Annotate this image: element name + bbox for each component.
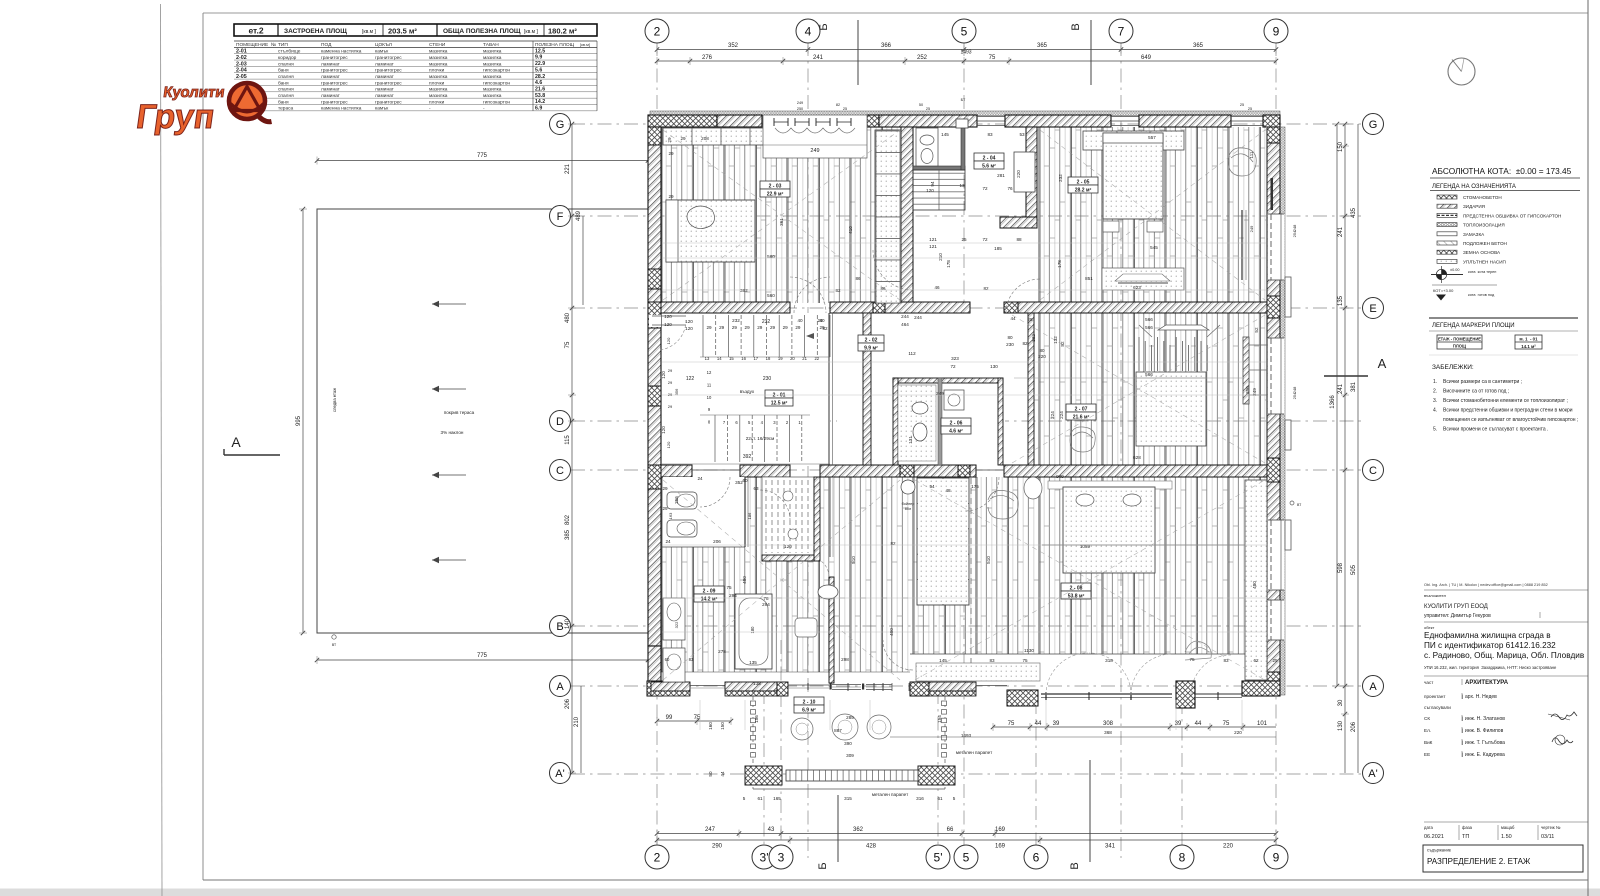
svg-text:80л: 80л xyxy=(905,507,911,511)
area header table xyxy=(234,24,597,36)
svg-text:75: 75 xyxy=(565,341,571,348)
svg-text:21: 21 xyxy=(802,356,807,361)
svg-text:220: 220 xyxy=(1016,170,1021,178)
svg-text:Всички размери са в сантиметри: Всички размери са в сантиметри ; xyxy=(1443,379,1522,385)
svg-text:22.9 м²: 22.9 м² xyxy=(767,192,784,198)
interior wall V1 (x903) xyxy=(901,127,913,302)
svg-text:6: 6 xyxy=(1033,850,1040,864)
outer wall top xyxy=(648,111,1280,127)
bed 2-05 xyxy=(1103,133,1163,219)
svg-text:ЗАБЕЛЕЖКИ:: ЗАБЕЛЕЖКИ: xyxy=(1432,364,1474,371)
svg-text:254: 254 xyxy=(1292,392,1297,399)
svg-text:560: 560 xyxy=(767,293,775,298)
svg-text:29: 29 xyxy=(745,325,751,330)
svg-text:390: 390 xyxy=(844,741,852,746)
vertical dimension line xyxy=(565,686,576,775)
svg-text:248: 248 xyxy=(1292,386,1297,393)
room 2-05 floor xyxy=(1037,127,1267,303)
svg-text:290: 290 xyxy=(712,844,723,850)
svg-text:30: 30 xyxy=(1338,699,1344,706)
svg-text:623: 623 xyxy=(1133,285,1141,290)
svg-text:278: 278 xyxy=(718,649,726,654)
svg-text:88: 88 xyxy=(1016,237,1022,242)
svg-text:1.50: 1.50 xyxy=(1501,834,1512,840)
vertical dimension line xyxy=(1338,216,1349,470)
svg-text:83: 83 xyxy=(987,132,993,137)
svg-text:566: 566 xyxy=(1145,317,1153,322)
svg-text:381: 381 xyxy=(1351,381,1357,392)
vertical dimension line xyxy=(576,210,583,305)
terrace side rail posts xyxy=(751,701,947,757)
svg-text:775: 775 xyxy=(477,153,488,159)
svg-text:ЕТАЖ - ПОМЕЩЕНИЕ: ЕТАЖ - ПОМЕЩЕНИЕ xyxy=(1438,337,1481,342)
svg-text:покрив тераса: покрив тераса xyxy=(444,410,475,415)
svg-text:въздух: въздух xyxy=(740,389,755,394)
svg-text:40: 40 xyxy=(797,318,803,323)
svg-text:230: 230 xyxy=(763,376,772,382)
svg-text:252: 252 xyxy=(917,55,928,61)
svg-text:C: C xyxy=(1369,465,1377,477)
svg-text:15: 15 xyxy=(729,356,734,361)
legend item ЗЕМНА ОСНОВА xyxy=(1437,250,1501,255)
svg-text:29: 29 xyxy=(770,325,776,330)
svg-text:82: 82 xyxy=(890,541,896,546)
svg-text:249: 249 xyxy=(936,391,944,396)
svg-text:120: 120 xyxy=(661,426,666,434)
bath right wall x829 xyxy=(829,577,834,683)
svg-text:В: В xyxy=(1069,862,1081,869)
marker boxes xyxy=(1437,335,1542,349)
svg-text:ТП: ТП xyxy=(1462,834,1469,840)
svg-text:366: 366 xyxy=(881,43,892,49)
svg-text:с. Радиново, Общ. Марица, Обл.: с. Радиново, Общ. Марица, Обл. Пловдив xyxy=(1424,651,1584,660)
svg-text:80: 80 xyxy=(1007,335,1013,340)
svg-text:м. 1 - 01: м. 1 - 01 xyxy=(1519,337,1538,342)
roof terrace outline (left) xyxy=(317,209,648,633)
svg-text:435: 435 xyxy=(1351,207,1357,218)
svg-text:480: 480 xyxy=(742,576,747,584)
svg-text:232: 232 xyxy=(1058,174,1063,182)
axis C xyxy=(1363,460,1384,481)
interior wall row G-F mid (y303) xyxy=(661,302,1267,313)
svg-text:ПЛОЩ: ПЛОЩ xyxy=(1453,344,1467,349)
svg-text:В: В xyxy=(1070,23,1082,30)
balcony door leaf 2-05 xyxy=(1271,178,1274,210)
vertical dimension line xyxy=(296,207,307,635)
svg-text:25: 25 xyxy=(1248,107,1252,111)
svg-text:29: 29 xyxy=(795,325,801,330)
svg-text:2: 2 xyxy=(654,850,661,864)
svg-text:241: 241 xyxy=(1338,226,1344,237)
armchair sketch 2-08 xyxy=(988,490,1018,519)
svg-text:18: 18 xyxy=(766,356,771,361)
svg-text:5: 5 xyxy=(953,796,956,801)
svg-text:G: G xyxy=(1369,119,1378,131)
svg-text:178: 178 xyxy=(946,260,951,268)
wardrobe unit 2x5 xyxy=(917,478,969,605)
svg-text:29: 29 xyxy=(719,325,725,330)
svg-text:315: 315 xyxy=(844,796,852,801)
svg-text:276: 276 xyxy=(702,55,713,61)
svg-text:78: 78 xyxy=(763,596,769,601)
svg-text:ЛЕГЕНДА МАРКЕРИ ПЛОЩИ: ЛЕГЕНДА МАРКЕРИ ПЛОЩИ xyxy=(1432,323,1515,329)
svg-text:3% наклон: 3% наклон xyxy=(441,430,464,435)
svg-text:03/11: 03/11 xyxy=(1541,834,1554,840)
label 2-04 xyxy=(974,153,1004,161)
svg-text:82: 82 xyxy=(983,286,989,291)
svg-text:54: 54 xyxy=(929,484,935,489)
svg-text:220: 220 xyxy=(1234,730,1242,735)
svg-text:281: 281 xyxy=(997,173,1005,178)
svg-text:318: 318 xyxy=(1105,658,1113,663)
svg-text:6.9 м²: 6.9 м² xyxy=(802,708,816,714)
vertical dimension line xyxy=(1338,468,1349,688)
svg-text:145: 145 xyxy=(941,132,949,137)
svg-text:230: 230 xyxy=(1006,342,1014,347)
svg-text:29: 29 xyxy=(668,404,673,409)
title block xyxy=(1424,583,1588,758)
svg-text:АРХИТЕКТУРА: АРХИТЕКТУРА xyxy=(1465,680,1509,686)
svg-text:24: 24 xyxy=(665,539,671,544)
svg-text:F: F xyxy=(557,211,564,223)
svg-text:75: 75 xyxy=(989,55,996,61)
dimension line xyxy=(655,827,1278,838)
dimension line xyxy=(315,153,650,165)
svg-text:29: 29 xyxy=(757,325,763,330)
svg-text:82: 82 xyxy=(1060,341,1065,347)
svg-text:53.8: 53.8 xyxy=(535,93,545,99)
bath 2-06 walls xyxy=(893,378,1003,465)
svg-text:285: 285 xyxy=(846,715,854,720)
bath 2-04 wall xyxy=(913,127,965,170)
svg-text:44: 44 xyxy=(1010,316,1016,321)
svg-text:249: 249 xyxy=(1252,388,1257,396)
svg-text:53.8 м²: 53.8 м² xyxy=(1068,594,1085,600)
axis 9 xyxy=(1264,845,1288,869)
axis 3' xyxy=(752,845,776,869)
svg-text:82: 82 xyxy=(822,326,828,331)
vertical dimension line xyxy=(1330,122,1341,688)
svg-text:[кв.м]: [кв.м] xyxy=(580,42,590,47)
svg-text:29: 29 xyxy=(732,325,738,330)
svg-text:6.9: 6.9 xyxy=(535,106,542,112)
svg-text:29: 29 xyxy=(667,137,672,143)
svg-text:241: 241 xyxy=(1338,383,1344,394)
axis 7 xyxy=(1109,19,1133,43)
svg-text:120: 120 xyxy=(784,544,792,549)
axis A xyxy=(1363,676,1384,697)
svg-text:356: 356 xyxy=(674,388,679,395)
svg-text:8: 8 xyxy=(1179,850,1186,864)
svg-text:365: 365 xyxy=(1193,43,1204,49)
svg-text:21.6 м²: 21.6 м² xyxy=(1073,415,1090,421)
svg-text:фаза: фаза xyxy=(1462,825,1473,830)
svg-text:20: 20 xyxy=(790,356,795,361)
bath 2-06 fixtures xyxy=(898,385,964,461)
axis G xyxy=(550,114,571,135)
svg-text:4.: 4. xyxy=(1433,408,1437,414)
svg-text:ЕЕ: ЕЕ xyxy=(1424,752,1430,757)
svg-text:инж. Н. Златанов: инж. Н. Златанов xyxy=(1465,716,1505,722)
svg-text:арх. Н. Недев: арх. Н. Недев xyxy=(1465,694,1497,700)
svg-text:52: 52 xyxy=(1254,327,1259,333)
svg-text:220: 220 xyxy=(1038,354,1046,359)
vertical dimension line xyxy=(1351,308,1358,470)
svg-text:А: А xyxy=(1378,356,1387,371)
svg-text:254: 254 xyxy=(1292,230,1297,237)
svg-text:249: 249 xyxy=(810,148,819,154)
svg-text:14.2 м²: 14.2 м² xyxy=(701,597,718,603)
svg-text:2 - 10: 2 - 10 xyxy=(803,700,816,706)
room 2-07 floor xyxy=(1034,313,1267,465)
svg-text:46: 46 xyxy=(934,285,940,290)
svg-text:206: 206 xyxy=(713,539,721,544)
room 2-09 area floor xyxy=(661,477,910,672)
svg-text:72: 72 xyxy=(950,364,956,369)
svg-text:86: 86 xyxy=(880,286,886,291)
svg-text:БТ: БТ xyxy=(961,98,966,102)
svg-text:2: 2 xyxy=(654,24,661,38)
outer wall right xyxy=(1267,127,1292,695)
svg-text:Груп: Груп xyxy=(134,98,217,136)
svg-text:19: 19 xyxy=(778,356,783,361)
svg-text:кота готов под: кота готов под xyxy=(1468,293,1495,297)
clothes rails top xyxy=(774,118,851,126)
svg-text:Височините са от готов под ;: Височините са от готов под ; xyxy=(1443,389,1509,395)
axis C xyxy=(550,460,571,481)
svg-text:410: 410 xyxy=(848,226,853,234)
svg-text:135: 135 xyxy=(1338,295,1344,306)
svg-text:3: 3 xyxy=(778,850,785,864)
level mark symbol xyxy=(1431,266,1496,283)
label 2-09 xyxy=(694,586,724,594)
svg-text:356: 356 xyxy=(1245,386,1250,394)
svg-text:12.5 м²: 12.5 м² xyxy=(771,401,788,407)
svg-text:154: 154 xyxy=(937,715,942,723)
svg-text:163: 163 xyxy=(668,512,673,519)
interior sill line bottom xyxy=(910,653,1267,655)
label 2-10 xyxy=(794,697,824,705)
svg-text:323: 323 xyxy=(951,356,959,361)
svg-text:5: 5 xyxy=(963,850,970,864)
svg-text:РАЗПРЕДЕЛЕНИЕ 2. ЕТАЖ: РАЗПРЕДЕЛЕНИЕ 2. ЕТАЖ xyxy=(1427,857,1531,866)
svg-text:43: 43 xyxy=(768,827,775,833)
svg-text:75: 75 xyxy=(726,585,732,590)
svg-text:ет.2: ет.2 xyxy=(248,26,263,36)
svg-text:помещения се изпълняват от вла: помещения се изпълняват от влагоустойчив… xyxy=(1443,416,1578,423)
svg-text:5.6 м²: 5.6 м² xyxy=(982,164,996,170)
svg-text:проектант: проектант xyxy=(1424,694,1446,699)
svg-text:86: 86 xyxy=(855,276,861,281)
svg-text:649: 649 xyxy=(1141,55,1152,61)
svg-text:135: 135 xyxy=(749,660,757,665)
svg-text:24: 24 xyxy=(697,476,703,481)
svg-text:50: 50 xyxy=(919,103,923,107)
svg-text:14.1 м²: 14.1 м² xyxy=(1521,344,1536,349)
svg-text:83: 83 xyxy=(1223,658,1229,663)
svg-text:C: C xyxy=(556,465,564,477)
svg-text:94: 94 xyxy=(930,181,935,187)
corridor 2-02 floor xyxy=(837,313,1005,465)
vertical dimension line xyxy=(1338,686,1349,773)
svg-text:169: 169 xyxy=(995,844,1006,850)
svg-text:60: 60 xyxy=(665,657,670,662)
svg-text:75: 75 xyxy=(1008,721,1015,727)
svg-text:210: 210 xyxy=(574,716,580,727)
svg-text:1493: 1493 xyxy=(960,50,971,56)
svg-text:9: 9 xyxy=(1273,850,1280,864)
axis dashed vertical lines xyxy=(656,42,658,858)
label 2-05 xyxy=(1068,177,1098,185)
svg-text:175: 175 xyxy=(971,484,979,489)
svg-text:44: 44 xyxy=(1035,721,1042,727)
svg-text:83: 83 xyxy=(989,658,995,663)
closet divider 2-07 right xyxy=(1243,337,1249,404)
svg-text:1130: 1130 xyxy=(1024,648,1034,653)
niche wardrobe 2-05 xyxy=(1014,152,1035,192)
svg-text:250: 250 xyxy=(797,107,803,111)
svg-text:инж. Т. Гълъбова: инж. Т. Гълъбова xyxy=(1465,740,1505,746)
Quality Group logo text xyxy=(134,84,226,136)
axis 5 xyxy=(952,19,976,43)
axis D xyxy=(550,411,571,432)
svg-text:48: 48 xyxy=(945,488,951,493)
svg-text:16: 16 xyxy=(741,356,746,361)
svg-text:ПИ с идентификатор 61412.16.23: ПИ с идентификатор 61412.16.232 xyxy=(1424,641,1556,650)
interior wall V2 (x1028) xyxy=(1000,127,1037,228)
svg-text:112: 112 xyxy=(908,351,916,356)
svg-text:5': 5' xyxy=(934,850,943,864)
svg-text:КОТ=+3.00: КОТ=+3.00 xyxy=(1433,288,1454,293)
svg-text:1059: 1059 xyxy=(1080,544,1091,549)
svg-text:13: 13 xyxy=(959,183,965,188)
svg-text:120: 120 xyxy=(666,441,671,448)
svg-text:111: 111 xyxy=(1249,151,1254,158)
svg-text:дата: дата xyxy=(1424,825,1434,830)
svg-text:392: 392 xyxy=(740,288,748,293)
svg-text:61: 61 xyxy=(757,796,763,801)
svg-text:156: 156 xyxy=(754,715,759,723)
svg-text:9: 9 xyxy=(1273,24,1280,38)
stair stringer lines xyxy=(828,313,830,465)
svg-text:Ел.: Ел. xyxy=(1424,728,1431,733)
svg-text:3.: 3. xyxy=(1433,398,1437,404)
svg-text:[кв.м ]: [кв.м ] xyxy=(362,29,376,35)
svg-text:135: 135 xyxy=(753,681,761,686)
svg-text:1366: 1366 xyxy=(1330,395,1336,409)
svg-text:29: 29 xyxy=(817,318,823,323)
svg-text:28.2: 28.2 xyxy=(535,74,545,80)
svg-text:УПИ 16.232, жил. територия За: УПИ 16.232, жил. територия Захарджика, Н… xyxy=(1424,665,1557,670)
dimension line xyxy=(655,836,1278,850)
svg-text:341: 341 xyxy=(1105,844,1116,850)
svg-text:121: 121 xyxy=(929,237,937,242)
legend item ПОДЛОЖЕН БЕТОН xyxy=(1437,241,1507,246)
svg-text:566: 566 xyxy=(1145,372,1153,377)
svg-text:150: 150 xyxy=(1338,141,1344,152)
svg-text:120: 120 xyxy=(685,319,693,324)
svg-text:съгласували: съгласували xyxy=(1424,705,1451,710)
svg-text:14.2: 14.2 xyxy=(535,99,545,105)
svg-text:възложител: възложител xyxy=(1424,593,1447,598)
dashed wardrobe front line xyxy=(970,478,972,690)
svg-text:75: 75 xyxy=(1022,658,1028,663)
bed 2-08 xyxy=(1042,481,1245,573)
sofa 2-08 xyxy=(818,585,838,599)
svg-text:5: 5 xyxy=(743,796,746,801)
walk-in closet with hangers xyxy=(762,477,820,561)
svg-text:66: 66 xyxy=(947,827,954,833)
svg-text:120: 120 xyxy=(666,337,671,344)
svg-text:210: 210 xyxy=(938,253,943,261)
svg-text:464: 464 xyxy=(901,322,909,327)
svg-text:232: 232 xyxy=(762,319,771,325)
svg-text:06.2021: 06.2021 xyxy=(1424,834,1444,840)
svg-text:72: 72 xyxy=(982,186,988,191)
svg-text:368: 368 xyxy=(1104,730,1112,735)
svg-text:29: 29 xyxy=(662,506,668,511)
svg-text:5.6: 5.6 xyxy=(535,67,542,73)
svg-text:Всички промени се съгласуват с: Всички промени се съгласуват с проектант… xyxy=(1443,427,1548,433)
svg-text:308: 308 xyxy=(1103,721,1114,727)
axis F xyxy=(550,206,571,227)
svg-text:120: 120 xyxy=(661,371,666,379)
axis E xyxy=(1363,298,1384,319)
svg-text:180.2 м²: 180.2 м² xyxy=(548,27,577,36)
svg-text:14: 14 xyxy=(717,356,722,361)
outer wall left xyxy=(648,127,661,695)
svg-text:чертеж №: чертеж № xyxy=(1541,825,1561,830)
svg-text:25: 25 xyxy=(843,107,847,111)
svg-text:120: 120 xyxy=(664,314,672,319)
svg-text:29: 29 xyxy=(668,368,673,373)
svg-text:ОБЩА ПОЛЕЗНА ПЛОЩ: ОБЩА ПОЛЕЗНА ПЛОЩ xyxy=(443,28,521,35)
svg-text:25: 25 xyxy=(961,237,967,242)
vertical dimension line xyxy=(1351,686,1358,773)
closet strip right 2-08 xyxy=(1245,480,1267,680)
dresser strip 2-05 bottom xyxy=(1102,268,1184,290)
svg-text:ПОДЛОЖЕН БЕТОН: ПОДЛОЖЕН БЕТОН xyxy=(1463,241,1507,246)
legend item ЗАМАЗКА xyxy=(1437,232,1485,237)
svg-text:СТОМАНОБЕТОН: СТОМАНОБЕТОН xyxy=(1463,195,1502,200)
dimension line xyxy=(655,43,1278,54)
logo emblem Q xyxy=(229,83,272,122)
svg-text:178: 178 xyxy=(1057,260,1062,268)
svg-text:ТОПЛОИЗОЛАЦИЯ: ТОПЛОИЗОЛАЦИЯ xyxy=(1463,223,1505,228)
axis G xyxy=(1363,114,1384,135)
svg-text:169: 169 xyxy=(995,827,1006,833)
svg-text:120: 120 xyxy=(664,322,672,327)
bath 2-09 top area: WCs xyxy=(661,477,752,547)
svg-text:352: 352 xyxy=(728,43,739,49)
svg-text:392: 392 xyxy=(743,454,752,460)
axis 3 xyxy=(769,845,793,869)
sheet frame xyxy=(203,12,1588,14)
svg-text:инж. В. Филипов: инж. В. Филипов xyxy=(1465,728,1504,734)
svg-text:25: 25 xyxy=(1272,658,1278,663)
svg-text:25: 25 xyxy=(926,107,930,111)
svg-text:5.: 5. xyxy=(1433,427,1437,433)
legend item СТОМАНОБЕТОН xyxy=(1437,195,1502,200)
svg-text:част: част xyxy=(1424,680,1434,685)
svg-text:131: 131 xyxy=(908,436,913,444)
svg-text:10: 10 xyxy=(707,395,712,400)
svg-text:53: 53 xyxy=(1019,132,1025,137)
svg-text:22.9: 22.9 xyxy=(535,61,545,67)
svg-text:206: 206 xyxy=(1351,721,1357,732)
terrace railing xyxy=(745,766,955,785)
svg-text:[кв.м ]: [кв.м ] xyxy=(524,29,538,35)
